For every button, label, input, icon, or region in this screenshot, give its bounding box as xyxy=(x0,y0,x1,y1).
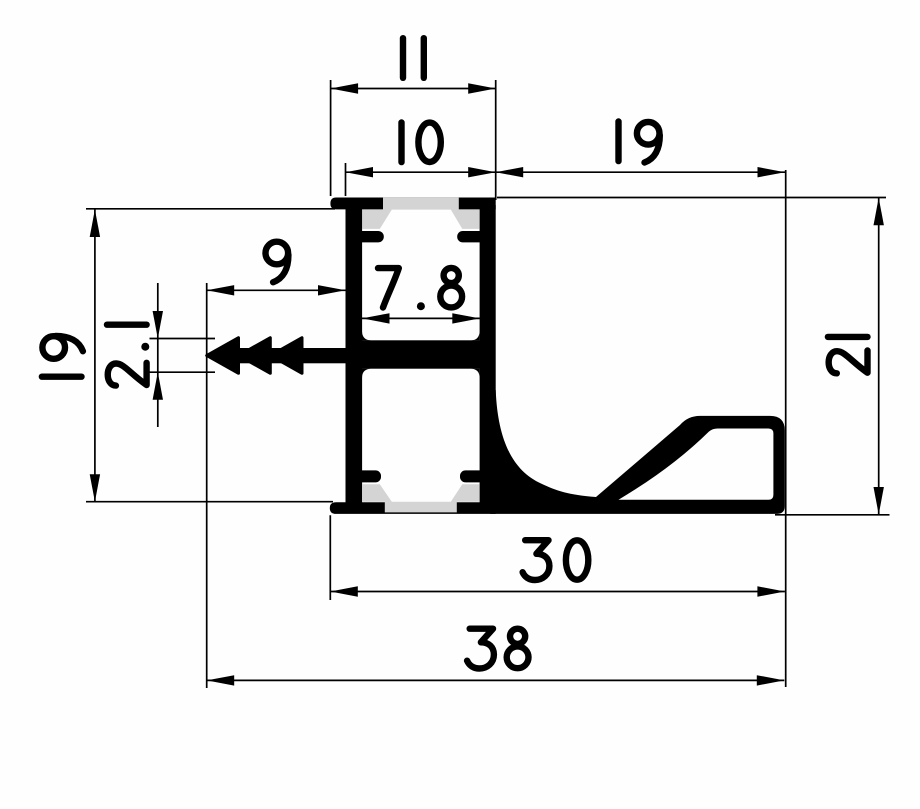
gray slot insert (top channel) xyxy=(362,198,479,229)
dim 21 right: value label (rotated) xyxy=(828,337,868,373)
dim 30: extension line left xyxy=(329,515,331,600)
dim 2.1: value label (rotated) xyxy=(107,325,149,386)
dim 19 top: dimension line xyxy=(496,171,785,173)
right wall xyxy=(480,205,496,505)
dim 10: dimension line xyxy=(346,171,496,173)
lower cavity right lip xyxy=(460,470,485,482)
dim 19 left: dimension line xyxy=(94,210,96,502)
lower cavity left lip xyxy=(356,470,381,482)
dim 11: value label xyxy=(403,38,424,78)
dim 9: dimension line xyxy=(207,289,346,291)
dim 19 left: extension lines xyxy=(86,208,335,210)
dim 10: value label xyxy=(402,123,441,163)
dim 30: dimension line xyxy=(330,591,785,593)
dim 38: dimension line xyxy=(207,679,785,681)
bottom cap xyxy=(330,502,496,514)
upper cavity left lip xyxy=(356,231,384,242)
dim 19 top: extension line right xyxy=(785,170,787,687)
barbed fin: tooth 1 xyxy=(207,338,239,374)
dim 2.1: extension lines xyxy=(150,338,216,340)
dim 38: value label xyxy=(467,629,528,669)
dim 9: extension line (shared with 38) xyxy=(206,283,208,688)
barbed fin: tooth 2 xyxy=(239,338,271,374)
barbed fin: tooth 3 xyxy=(270,338,302,374)
dim 19 top: value label xyxy=(619,122,660,163)
gray slot insert (bottom channel) xyxy=(362,484,479,512)
middle divider web xyxy=(355,340,485,368)
divider corner fillets xyxy=(362,332,371,341)
left wall xyxy=(346,205,363,505)
dim 7.8: value label xyxy=(378,268,462,310)
foot with fillet, diagonal arm and hook (hole cut out) xyxy=(490,390,785,514)
dim 21 right: dimension line xyxy=(878,198,880,515)
dim 11: extension lines xyxy=(330,80,332,196)
dim 7.8: dimension line xyxy=(362,317,480,319)
dim 10: extension line xyxy=(345,163,347,196)
dim 30: value label xyxy=(523,540,589,580)
profile main body: top cap xyxy=(330,198,495,210)
dim 2.1: dimension line xyxy=(157,283,159,427)
dim 19 left: value label (rotated) xyxy=(42,336,83,377)
dim 9: value label xyxy=(266,242,289,283)
barbed fin: stem xyxy=(230,348,346,363)
upper cavity right lip xyxy=(457,231,485,242)
dim 11: dimension line xyxy=(331,88,496,90)
dim 21 right: extension lines xyxy=(497,197,886,199)
